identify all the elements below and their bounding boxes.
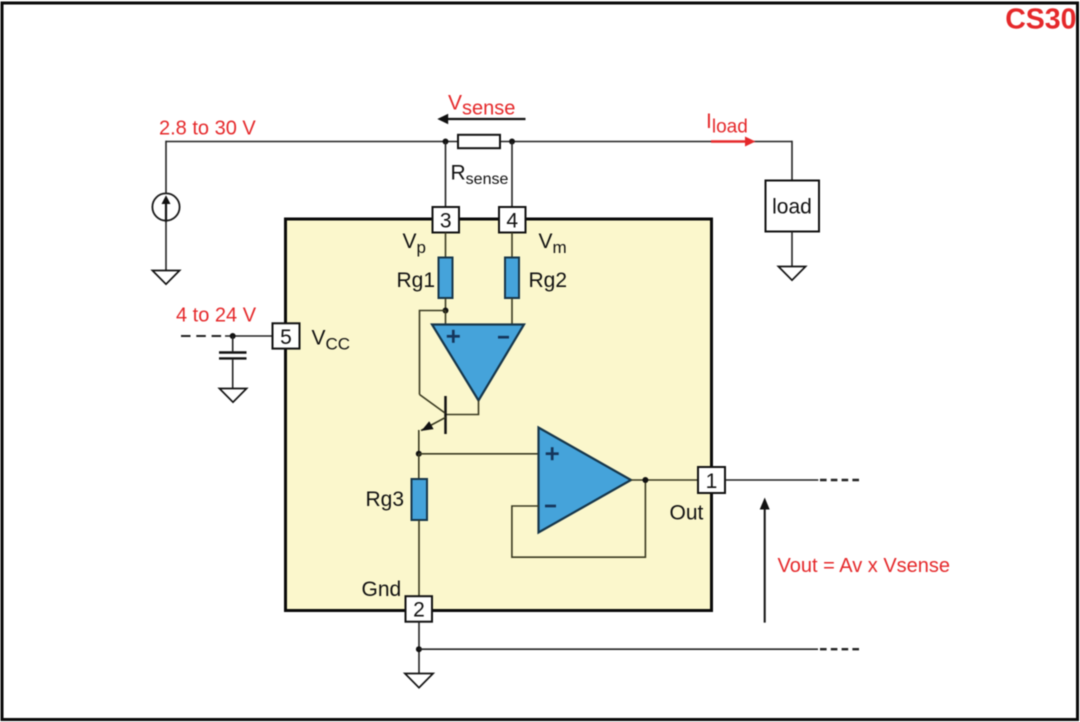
Vsense arrow [437,114,525,125]
wire: top supply rail [166,141,792,143]
svg-text:1: 1 [706,470,718,493]
wire: node to op-amp U1 plus input [445,311,447,324]
wire: U2 output to pin 1 [631,479,698,481]
pin 1 [698,467,725,493]
wire: bottom rail dashed tail [820,648,860,650]
svg-text:4: 4 [506,210,518,233]
transistor Q1 [420,395,446,435]
wire: emitter down to node [418,430,420,454]
wire: current source to ground [165,221,167,271]
ground (left) [152,271,179,285]
wire: Vcc dashed lead [181,335,226,337]
wire: U1 output stub to transistor base [446,401,479,415]
node: junction right of Rsense [509,139,515,145]
node on ground wire [416,646,422,652]
svg-text:2: 2 [413,599,425,622]
svg-text:Gnd: Gnd [362,578,402,601]
wire: pin 1 output line [726,479,819,481]
pin 2 [406,596,433,622]
svg-text:Rg3: Rg3 [366,488,405,511]
wire: node to pin 4 [511,142,513,208]
svg-text:load: load [772,196,812,219]
wire: Vcc solid lead to pin 5 [225,335,273,337]
wire: Rg1 to node [445,298,447,311]
wire: pin 4 to Rg2 [511,233,513,258]
svg-text:Out: Out [670,502,704,525]
IC body (yellow box) [286,219,712,611]
svg-text:5: 5 [280,326,292,349]
wire: node to transistor collector (left, down) [420,311,446,395]
wire: load to ground [791,232,793,267]
resistor Rg1 [439,258,453,299]
svg-text:2.8 to 30 V: 2.8 to 30 V [159,118,256,140]
op-amp U2 (pointing right) [539,428,632,533]
pin 4 [499,207,526,233]
wire: bottom rail [419,648,818,650]
svg-text:Rg1: Rg1 [397,269,436,292]
svg-text:3: 3 [440,210,452,233]
wire: Rg3 to pin 2 [418,520,420,596]
pin 5 [273,323,300,349]
resistor Rsense [458,135,500,148]
wire: output dashed tail [820,479,860,481]
node: junction left of Rsense [443,139,449,145]
ground (bottom) [405,674,433,688]
node at capacitor [230,333,236,339]
wire: rail corner down to load [791,141,793,181]
svg-text:Rg2: Rg2 [529,269,568,292]
load box [766,181,820,232]
svg-text:Vout = Av x Vsense: Vout = Av x Vsense [778,555,951,577]
svg-text:4 to 24 V: 4 to 24 V [176,305,257,327]
Vout arrow [760,498,770,623]
wire: Rg2 to op-amp U1 minus input [511,298,513,324]
wire: node down to Rg3 [418,454,420,479]
wire: node to pin 3 [445,142,447,208]
pin 3 [433,207,460,233]
wire: pin 3 to Rg1 [445,233,447,258]
wire: left vertical to current source [165,141,167,194]
node at emitter/Rg3 [416,451,422,457]
capacitor C1 [219,336,247,389]
wire: node to op-amp U2 plus input [419,453,539,455]
resistor Rg2 [505,258,519,299]
ground (under load) [778,267,805,281]
wire: pin 2 to ground [418,622,420,674]
node below Rg1 [443,308,449,314]
Iload arrow (red) [711,137,756,147]
ground (under capacitor) [219,389,246,403]
op-amp U1 (pointing down) [432,325,524,401]
current source I1 [152,193,179,222]
svg-text:CS30: CS30 [1005,4,1076,36]
wire: U2 feedback loop [512,480,646,557]
node at U2 output [642,477,648,483]
resistor Rg3 [412,479,428,520]
